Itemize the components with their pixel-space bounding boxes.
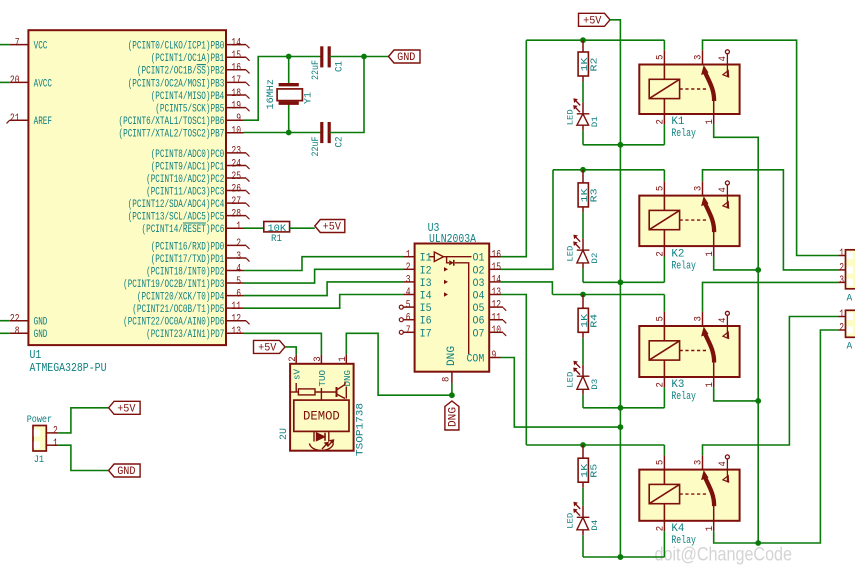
LED D1 [574,99,589,125]
svg-text:17: 17 [231,75,241,87]
svg-text:LED: LED [565,246,575,262]
wire U3 O3 to K3 rail [501,282,553,295]
U2 pin 3 stub [320,355,322,364]
svg-text:+5V: +5V [117,403,136,415]
rail node O3 [552,294,664,296]
wire PD2 to U3 I1 [244,257,404,271]
wire U3 O4 to K4 rail [501,295,527,446]
wire D2 to +5V row [582,263,584,269]
wire AVCC to page edge [0,81,10,83]
svg-text:(PCINT1/OC1A)PB1: (PCINT1/OC1A)PB1 [151,53,225,65]
svg-text:6: 6 [236,288,241,300]
svg-text:1: 1 [839,309,844,321]
U3 pin 13 O4 stub [489,294,500,296]
U1 pin 22 GND stub [10,320,29,322]
svg-text:K2: K2 [671,248,684,260]
U1 pin 17 PB3 stub [226,81,246,83]
svg-text:16MHz: 16MHz [266,79,277,110]
svg-text:2: 2 [655,251,667,256]
svg-text:U1: U1 [30,349,42,362]
U3 pin 4 I4 stub [404,294,415,296]
svg-text:I1: I1 [420,253,432,265]
svg-text:1K: 1K [580,313,590,328]
svg-text:22uF: 22uF [311,137,322,157]
svg-text:15: 15 [231,50,241,62]
wire crystal bottom stub [288,104,290,133]
svg-text:sV: sV [291,369,302,380]
U3 pin 14 O3 stub [489,281,500,283]
IC U1 body [28,30,226,345]
X1 pin 3 stub [839,281,846,283]
resistor R1 body [264,222,290,232]
svg-text:ULN2003A: ULN2003A [429,233,476,246]
svg-text:3: 3 [693,55,705,60]
svg-text:3: 3 [693,186,705,191]
svg-text:+5V: +5V [583,15,602,27]
AREF unconnected tick [7,120,10,123]
U1 pin 2 PD0 stub [226,244,246,246]
wire D4 to +5V row [582,530,584,536]
wire U2 GND to gnd node [346,333,452,395]
svg-text:1: 1 [704,526,716,531]
svg-text:14: 14 [231,37,241,49]
svg-text:28: 28 [231,208,241,220]
U1 pin 26 PC3 stub [226,190,246,192]
svg-text:24: 24 [231,158,241,170]
U1 pin 3 PD1 stub [226,257,246,259]
wire K2 pin3 to X1 pin2 [703,170,839,270]
svg-text:7: 7 [406,325,411,337]
svg-text:3: 3 [236,251,241,263]
U2 pin 2 stub [295,355,297,364]
resistor R4 [582,295,584,309]
svg-text:2U: 2U [278,428,290,440]
connector X2 body [846,310,855,337]
svg-text:O5: O5 [473,303,485,315]
svg-text:1K: 1K [580,188,590,203]
svg-text:2: 2 [406,262,411,274]
svg-text:O2: O2 [473,265,485,277]
+5V flag at J1 [109,401,141,414]
svg-text:O7: O7 [473,328,485,340]
U1 pin 21 AREF stub [10,119,29,121]
svg-text:J1: J1 [34,454,45,466]
svg-text:+5V: +5V [258,343,277,355]
wire K2 coil pin2 to LED row [663,257,665,283]
wire LED row K1 [583,144,664,146]
LED D3 [574,362,589,390]
svg-text:1: 1 [704,119,716,124]
svg-text:(PCINT14/RESET)PC6: (PCINT14/RESET)PC6 [142,224,225,236]
wire C1 to GND node [329,56,388,58]
svg-text:13: 13 [492,287,502,299]
svg-text:(PCINT23/AIN1)PD7: (PCINT23/AIN1)PD7 [146,329,224,341]
overline SS on PB2 [197,64,206,66]
svg-text:D2: D2 [590,253,600,264]
svg-text:7: 7 [15,37,20,49]
U2 internal OUT lead [320,388,322,400]
svg-text:2: 2 [236,238,241,250]
svg-text:12: 12 [231,314,241,326]
U1 pin 6 PD4 stub [226,295,244,297]
wire VCC to page edge [0,44,10,46]
svg-text:(PCINT0/CLKO/ICP1)PB0: (PCINT0/CLKO/ICP1)PB0 [128,41,225,53]
U1 pin 5 PD3 stub [226,282,244,284]
U2 lens arc [309,444,333,451]
U3 pin 11 O6 stub [489,319,503,321]
U3 pin 1 I1 stub [404,256,415,258]
svg-text:(PCINT21/OC0B/T1)PD5: (PCINT21/OC0B/T1)PD5 [132,304,224,316]
svg-text:16: 16 [492,249,502,261]
wire K3 coil pin5 to rail [663,295,665,312]
svg-text:(PCINT10/ADC2)PC2: (PCINT10/ADC2)PC2 [146,174,224,186]
wire LED row K4 [583,556,664,558]
resistor R5 [582,445,584,458]
svg-text:3: 3 [406,275,411,287]
svg-text:(PCINT20/XCK/T0)PD4: (PCINT20/XCK/T0)PD4 [137,292,225,304]
U1 pin 16 PB2 stub [226,69,246,71]
wire K2 coil pin5 to rail [663,170,665,182]
wire PD4 to U3 I3 [244,282,404,296]
svg-text:GND: GND [34,317,48,329]
svg-text:DNG: DNG [446,346,458,366]
svg-text:8: 8 [15,326,20,338]
U1 pin 11 PD5 stub [226,307,244,309]
svg-text:27: 27 [231,196,241,208]
wire K1 coil pin5 to rail [663,40,665,50]
wire K1 pin1 to common [714,124,759,543]
svg-text:(PCINT17/TXD)PD1: (PCINT17/TXD)PD1 [151,254,225,266]
wire K3 pin1 to common [714,387,759,401]
svg-text:5: 5 [406,300,411,312]
svg-text:10: 10 [492,325,502,337]
LED D4 [574,503,589,530]
wire R3 to D2 [582,207,584,213]
svg-text:2: 2 [655,526,667,531]
wire R4 to D3 [582,332,584,338]
svg-text:(PCINT22/OC0A/AIN0)PD6: (PCINT22/OC0A/AIN0)PD6 [123,317,224,329]
wire U3 GND pin to gnd node [451,383,453,395]
U2 DEMOD block [294,400,349,431]
svg-text:5: 5 [655,55,667,60]
svg-text:O1: O1 [473,253,485,265]
svg-text:9: 9 [492,350,497,362]
relay K1 [639,65,739,115]
X2 pin 2 stub [839,329,846,331]
wire PC6 to R1 [244,227,264,229]
svg-text:O4: O4 [473,291,485,303]
wire J1 pin1 to GND [58,445,108,470]
U1 pin 1 PC6 stub [226,227,244,229]
wire U3 COM to +5V rail [501,358,621,428]
U3 channel-1 darlington triangle [430,252,472,263]
svg-text:21: 21 [10,113,20,125]
relay K3 [639,326,739,377]
svg-text:3: 3 [839,275,844,287]
svg-text:1: 1 [406,249,411,261]
U2 pin 1 stub [345,355,347,364]
wire XTAL1 PB6 to crystal top [244,57,322,121]
svg-text:5: 5 [236,276,241,288]
svg-text:K4: K4 [671,523,684,535]
svg-text:I5: I5 [420,303,432,315]
wire U3 O1 to K1 rail [501,40,527,257]
svg-text:(PCINT18/INT0)PD2: (PCINT18/INT0)PD2 [146,266,224,278]
U1 pin 23 PC0 stub [226,152,246,154]
relay K4 [639,470,739,521]
svg-text:A: A [847,340,853,352]
wire +5V vertical rail [610,20,620,557]
U3 pin 6 I6 stub [404,319,415,321]
junction +5V end [618,554,624,560]
svg-text:22uF: 22uF [311,60,322,80]
wire K1 pin3 to X1 pin1 [703,40,839,255]
junction C1/C2 gnd node [361,54,367,60]
junction common K3 [755,398,761,404]
svg-text:1K: 1K [580,463,590,478]
svg-text:5: 5 [655,460,667,465]
rail node O1 [526,39,664,41]
U2 internal input resistor [291,383,337,395]
wire K3 pin3 to X1 pin3 [703,282,839,311]
wire K4 coil pin2 to LED row [663,531,665,557]
svg-text:20: 20 [10,75,20,87]
J1 pin 2 stub [46,432,58,434]
svg-text:11: 11 [231,301,241,313]
LED D2 [574,236,589,263]
svg-text:(PCINT11/ADC3)PC3: (PCINT11/ADC3)PC3 [146,186,224,198]
svg-text:26: 26 [231,183,241,195]
X2 pin 1 stub [839,316,846,318]
svg-text:GND: GND [397,52,416,64]
svg-text:TSOP1738: TSOP1738 [356,403,367,456]
GND flag at J1 [109,464,141,477]
U3 pin 12 O5 stub [489,306,503,308]
svg-text:Y1: Y1 [304,92,315,104]
svg-text:Power: Power [27,414,52,426]
svg-text:AVCC: AVCC [34,78,53,90]
rail node O2 [553,169,664,171]
svg-text:10: 10 [231,126,241,138]
wire K3 coil pin2 to LED row [663,387,665,407]
svg-text:AREF: AREF [34,116,52,128]
U1 pin 15 PB1 stub [226,56,246,58]
U1 pin 4 PD2 stub [226,270,244,272]
U1 pin 25 PC2 stub [226,177,246,179]
svg-text:R4: R4 [589,314,599,328]
U1 pin 19 PB5 stub [226,107,246,109]
wire K1 coil pin2 to LED row [663,124,665,144]
svg-text:(PCINT6/XTAL1/TOSC1)PB6: (PCINT6/XTAL1/TOSC1)PB6 [119,116,225,128]
U1 pin 8 GND stub [10,332,29,334]
svg-text:5: 5 [655,186,667,191]
wire R2 to D1 [582,76,584,82]
junction crystal top node [286,54,292,60]
U1 pin 20 AVCC stub [10,81,29,83]
wire D3 to +5V row [582,389,584,395]
svg-text:R3: R3 [589,188,599,202]
wire J1 pin2 to +5V [58,408,108,433]
svg-text:4: 4 [717,318,729,323]
U2 internal transistor [337,382,347,399]
svg-text:+5V: +5V [323,222,342,234]
U1 pin 12 PD6 stub [226,320,246,322]
svg-text:Relay: Relay [671,128,696,140]
svg-text:19: 19 [231,100,241,112]
IC U2 body [290,364,354,451]
svg-text:DNG: DNG [448,407,460,427]
svg-text:R1: R1 [271,233,282,245]
svg-text:14: 14 [492,275,502,287]
wire LED row K3 [583,407,664,409]
wire LED row K2 [583,281,664,283]
svg-text:1: 1 [337,356,349,361]
svg-text:Relay: Relay [671,260,696,272]
svg-text:K1: K1 [671,116,684,128]
wire GND to page edge [0,320,10,322]
svg-text:ATMEGA328P-PU: ATMEGA328P-PU [30,362,107,375]
+5V flag at U2 [254,340,286,353]
svg-text:(PCINT3/OC2A/MOSI)PB3: (PCINT3/OC2A/MOSI)PB3 [128,78,225,90]
X1 pin 2 stub [839,269,846,271]
svg-text:1: 1 [704,382,716,387]
svg-text:(PCINT2/OC1B/SS)PB2: (PCINT2/OC1B/SS)PB2 [137,66,224,78]
svg-text:(PCINT12/SDA/ADC4)PC4: (PCINT12/SDA/ADC4)PC4 [128,199,225,211]
wire U3 O2 to K2 rail [501,170,554,269]
U3 pin 10 O7 stub [489,331,503,333]
U3 pin 8 GND stub [451,372,453,383]
connector X1 body [846,250,855,289]
wire R5 to D4 [582,482,584,488]
+5V flag top [579,13,611,26]
crystal Y1 [277,85,302,104]
svg-text:GND: GND [117,466,136,478]
svg-text:9: 9 [236,113,241,125]
svg-text:2: 2 [53,426,58,438]
svg-text:4: 4 [406,287,411,299]
svg-text:4: 4 [717,461,729,466]
svg-text:1: 1 [704,251,716,256]
U1 pin 10 PB7 stub [226,132,244,134]
U3 pin 16 O1 stub [489,256,500,258]
wire K4 coil pin5 to rail [663,445,665,455]
svg-text:Relay: Relay [671,391,696,403]
svg-text:I6: I6 [420,316,432,328]
svg-text:(PCINT9/ADC1)PC1: (PCINT9/ADC1)PC1 [151,161,225,173]
IC U3 body [415,244,490,372]
svg-text:13: 13 [231,326,241,338]
U1 pin 13 PD7 stub [226,332,244,334]
svg-text:(PCINT5/SCK)PB5: (PCINT5/SCK)PB5 [155,104,224,116]
U3 channel-3 repeat mark [444,280,448,284]
svg-text:(PCINT19/OC2B/INT1)PD3: (PCINT19/OC2B/INT1)PD3 [123,279,224,291]
svg-text:4: 4 [717,187,729,192]
U3 pin 7 I7 stub [404,331,415,333]
resistor R3 [582,170,584,183]
J1 pin 1 stub [46,444,58,446]
wire R1 to +5V flag [290,227,315,229]
svg-text:LED: LED [565,513,575,529]
svg-text:D3: D3 [590,379,600,390]
U3 channel-2 repeat mark [444,267,448,271]
svg-text:LED: LED [565,372,575,388]
svg-text:2: 2 [655,119,667,124]
U3 channel-4 repeat mark [444,292,448,296]
wire PD5 to U3 I4 [244,295,404,309]
wire crystal top stub [288,57,290,85]
svg-text:11: 11 [492,312,502,324]
svg-text:COM: COM [467,354,485,366]
resistor R2 [582,40,584,52]
svg-text:4: 4 [717,56,729,61]
U1 pin 9 PB6 stub [226,119,244,121]
svg-text:DNG: DNG [342,370,353,387]
svg-text:O3: O3 [473,278,485,290]
svg-text:25: 25 [231,171,241,183]
svg-text:I2: I2 [420,265,432,277]
svg-text:R5: R5 [589,464,599,478]
U1 pin 27 PC4 stub [226,202,246,204]
svg-text:DEMOD: DEMOD [303,409,340,423]
U1 pin 7 VCC stub [10,44,29,46]
junction +5V COM tap [618,424,624,430]
svg-text:C2: C2 [335,137,346,148]
svg-text:1K: 1K [580,57,590,72]
svg-text:2: 2 [839,323,844,335]
U3 pin 3 I3 stub [404,281,415,283]
svg-text:2: 2 [655,382,667,387]
svg-text:VCC: VCC [34,41,48,53]
svg-text:2: 2 [287,356,299,361]
svg-text:O6: O6 [473,316,485,328]
U3 pin 2 I2 stub [404,268,415,270]
svg-text:I4: I4 [420,291,432,303]
svg-text:D1: D1 [590,116,600,127]
wire K2 pin1 to common [714,257,759,270]
svg-text:8: 8 [440,377,452,382]
wire C2 to gnd riser [329,57,364,133]
wire GND to page edge [0,332,10,334]
U3 pin 9 COM stub [489,357,500,359]
junction common K4 [755,540,761,546]
capacitor C1 [322,46,329,67]
U1 pin 24 PC1 stub [226,164,246,166]
svg-text:(PCINT13/SCL/ADC5)PC5: (PCINT13/SCL/ADC5)PC5 [128,212,225,224]
connector J1 body [33,426,46,452]
svg-text:23: 23 [231,146,241,158]
svg-text:4: 4 [236,263,241,275]
svg-text:15: 15 [492,262,502,274]
svg-text:1: 1 [53,438,58,450]
wire K4 pin3 to X2 pin1 [703,317,839,456]
U1 pin 14 PB0 stub [226,44,246,46]
svg-text:5: 5 [655,316,667,321]
svg-text:GND: GND [34,329,48,341]
svg-text:LED: LED [565,109,575,125]
junction common K2 [755,267,761,273]
svg-text:C1: C1 [335,61,346,72]
svg-text:(PCINT8/ADC0)PC0: (PCINT8/ADC0)PC0 [151,149,225,161]
junction crystal bottom node [286,130,292,136]
svg-text:Relay: Relay [671,535,696,547]
svg-text:TUO: TUO [317,370,328,387]
relay K2 [639,196,739,247]
GND flag crystal [389,50,421,63]
U1 pin 28 PC5 stub [226,215,246,217]
svg-text:3: 3 [693,316,705,321]
U2 photodiode [314,431,334,449]
wire D1 to +5V row [582,125,584,131]
